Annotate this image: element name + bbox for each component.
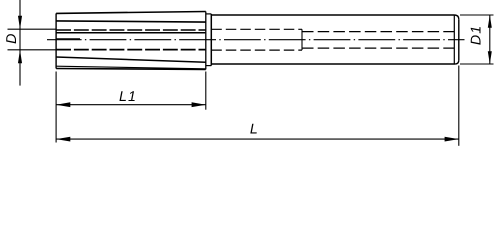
left end face (55, 13, 57, 68)
arrow D bottom (18, 50, 22, 63)
arrow D top (18, 16, 22, 29)
dimension D line (19, 0, 21, 86)
shank end face (458, 19, 460, 60)
shank end rounded corner top (455, 15, 459, 19)
flute bottom outer line (56, 68, 206, 71)
shoulder face (210, 14, 212, 66)
dimension D1 line (489, 15, 491, 64)
neck bottom edge (206, 65, 212, 67)
dimension L1 line (56, 104, 206, 106)
centerline (47, 39, 465, 41)
shank bottom edge (211, 63, 455, 65)
dimension L line (56, 138, 459, 140)
shank chamfer line (453, 15, 455, 64)
svg-text:D: D (4, 34, 20, 44)
shank hidden line bottom right (302, 47, 454, 49)
dimension L extension left (55, 72, 57, 143)
hidden step vertical (301, 29, 303, 50)
svg-text:L1: L1 (119, 89, 137, 105)
arrow L left (56, 137, 70, 142)
shank hidden line bottom left (211, 49, 302, 51)
arrow L1 left (56, 102, 70, 107)
neck top edge (206, 13, 212, 15)
dimension L extension right (458, 66, 460, 146)
dimension D1 extension bottom (460, 63, 494, 65)
arrow D1 top (488, 15, 492, 28)
flute hidden line lower (56, 49, 205, 51)
svg-text:D1: D1 (468, 25, 484, 45)
flute top outer line (56, 12, 206, 14)
arrow D1 bottom (488, 51, 492, 64)
dimension L1 extension right (205, 72, 207, 110)
dimension D extension bottom (8, 49, 57, 51)
arrow L right (445, 137, 459, 142)
flute bottom third line (56, 57, 206, 62)
shank hidden line top right (302, 31, 454, 33)
flute end vertical (205, 12, 207, 70)
arrow L1 right (192, 102, 206, 107)
svg-text:L: L (250, 121, 258, 137)
flute top third line (56, 21, 206, 22)
flute bottom second line (56, 66, 206, 69)
dimension D1 extension top (460, 14, 494, 16)
dimension D extension top (8, 28, 57, 30)
shank top edge (211, 14, 455, 16)
shank hidden line top left (211, 28, 302, 30)
flute tip edge (56, 38, 80, 40)
flute near-center line (56, 32, 205, 34)
flute hidden line upper (56, 29, 205, 31)
shank end rounded corner bottom (455, 60, 459, 64)
